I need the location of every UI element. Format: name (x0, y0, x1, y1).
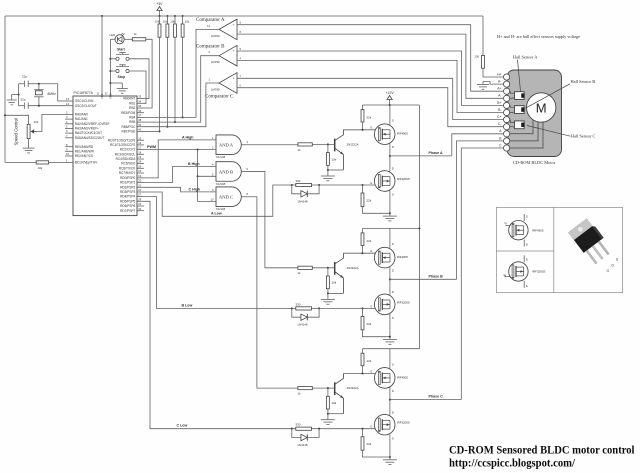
svg-text:RA2/AN2/VREF-/CVREF: RA2/AN2/VREF-/CVREF (75, 122, 110, 126)
wire +5V top rail (5, 15, 483, 17)
wire comparator input to hall pin (237, 78, 503, 119)
pin 18 RC3/SCK/SCL (137, 153, 144, 155)
svg-text:G: G (370, 425, 372, 429)
wire high gate rail B (343, 252, 375, 254)
svg-text:IRF3205S: IRF3205S (397, 177, 410, 181)
motor pin B+ (504, 102, 510, 108)
hall sensor B symbol (515, 106, 525, 114)
pin 6 RA4/T0CKI/C1OUT (65, 132, 73, 134)
svg-text:LM339: LM339 (211, 88, 220, 92)
svg-text:74LS08: 74LS08 (216, 207, 226, 211)
transistor 2N2222A C (334, 382, 336, 395)
svg-text:IRF4905: IRF4905 (397, 375, 408, 379)
wire +12V bus (418, 105, 420, 349)
svg-text:RD4/PSP4: RD4/PSP4 (120, 195, 135, 199)
svg-text:D: D (392, 290, 394, 294)
AND gate AND B 74LS08 (216, 162, 241, 182)
switch Stop (110, 70, 115, 72)
svg-text:10k: 10k (332, 157, 337, 161)
motor pin C+ (504, 117, 510, 123)
svg-text:S: S (392, 362, 394, 366)
svg-text:74LS08: 74LS08 (216, 155, 226, 159)
svg-text:Comparator C: Comparator C (205, 95, 234, 100)
wire AND A output (246, 144, 298, 146)
resistor 1k base A (298, 143, 312, 146)
svg-text:D: D (392, 269, 394, 273)
svg-text:S: S (392, 436, 394, 440)
svg-text:Phase C: Phase C (429, 395, 444, 399)
diode 1N4148 A (292, 185, 301, 194)
wire pull-up to RB pin (182, 37, 184, 117)
svg-text:D: D (526, 243, 528, 247)
svg-text:IRF4905: IRF4905 (532, 228, 544, 232)
svg-text:AND B: AND B (219, 169, 233, 174)
pin 20 RD1/PSP1 (137, 182, 144, 184)
svg-text:RD2/PSP2: RD2/PSP2 (120, 185, 135, 189)
svg-text:RC7/RX/DT: RC7/RX/DT (119, 171, 136, 175)
svg-text:D: D (392, 389, 394, 393)
svg-text:RB6/PGC: RB6/PGC (122, 125, 137, 129)
motor M symbol (527, 93, 556, 122)
pin 37 RB4 (137, 116, 144, 118)
svg-text:S: S (526, 284, 528, 288)
pin 8 RE0/AN5/RD (65, 146, 73, 148)
svg-text:CD-ROM BLDC Motor: CD-ROM BLDC Motor (513, 160, 556, 165)
wire low gate B (292, 307, 376, 309)
svg-text:S: S (392, 242, 394, 246)
motor pin B (504, 138, 510, 144)
wire hall C to pins (510, 120, 514, 123)
pin 23 RC4/SDI/SDA (137, 158, 144, 160)
svg-text:Hall Sensor B: Hall Sensor B (571, 79, 596, 84)
wire motor windings to pins (510, 120, 533, 134)
pin 35 RB2 (137, 107, 144, 109)
wire emitter to ground B (328, 292, 344, 294)
svg-text:A High: A High (182, 135, 193, 139)
svg-text:330: 330 (296, 179, 301, 183)
node Phase C (389, 399, 391, 401)
wire Start to RB0 (129, 59, 149, 99)
svg-text:IRF3205S: IRF3205S (397, 300, 410, 304)
svg-text:RA3/AN3/VREF+: RA3/AN3/VREF+ (75, 127, 99, 131)
wire hall A to pins (510, 91, 514, 93)
crystal X1 8MHz (34, 89, 43, 91)
wire pull-up to RB pin (174, 37, 176, 122)
resistor 330 low gate C (296, 427, 312, 430)
wire comparator input to hall pin (237, 34, 503, 98)
ground H- (482, 82, 484, 85)
pin 13 OSC1/CLKIN (65, 100, 73, 102)
capacitor C2 22p (19, 105, 25, 107)
wire B Low (144, 197, 292, 309)
svg-text:IRF4905: IRF4905 (397, 255, 408, 259)
pin 28 RD5/PSP5 (137, 200, 144, 202)
resistor 22k low gate C (362, 429, 364, 437)
svg-text:Hall Sensor C: Hall Sensor C (571, 134, 596, 139)
wire Phase C to motor pin C (461, 148, 503, 400)
pin 21 RD2/PSP2 (137, 186, 144, 188)
power +5V (159, 11, 161, 17)
svg-text:RA1/AN1: RA1/AN1 (75, 117, 88, 121)
wire H- (483, 82, 503, 85)
wire PWM (144, 149, 216, 151)
wire Comparator A output to RB4 (144, 29, 219, 117)
motor pin A (504, 131, 510, 137)
potentiometer RV1 10k Speed Control (27, 124, 30, 138)
svg-text:RD3/PSP3: RD3/PSP3 (120, 190, 135, 194)
svg-text:330: 330 (296, 302, 301, 306)
svg-text:RD1/PSP1: RD1/PSP1 (120, 181, 135, 185)
svg-text:C+: C+ (497, 115, 501, 119)
svg-text:LM339: LM339 (211, 60, 220, 64)
pin 17 RC2/CCP1 (137, 149, 144, 151)
svg-text:A Low: A Low (211, 212, 222, 216)
svg-text:RA5/AN4/SS/C2OUT: RA5/AN4/SS/C2OUT (75, 136, 105, 140)
pin 9 RE1/AN6/WR (65, 150, 73, 152)
wire AND B output to bridge B (246, 171, 298, 267)
svg-text:PWM: PWM (147, 145, 156, 149)
svg-text:D: D (392, 145, 394, 149)
svg-text:RA4/T0CKI/C1OUT: RA4/T0CKI/C1OUT (75, 131, 102, 135)
motor pin H+ (504, 74, 510, 80)
MOSFET IRF3205S low side A (389, 156, 391, 171)
pin 39 RB6/PGC (137, 126, 144, 128)
svg-text:RB5: RB5 (129, 120, 135, 124)
resistor 10k base-emitter C (327, 388, 329, 396)
svg-text:C Low: C Low (177, 424, 188, 428)
svg-text:2N2222A: 2N2222A (347, 142, 359, 146)
svg-text:Stop: Stop (118, 75, 126, 79)
svg-text:RE0/AN5/RD: RE0/AN5/RD (75, 145, 94, 149)
hall sensor C symbol (515, 121, 525, 129)
svg-text:C High: C High (189, 187, 201, 191)
pin 22 RD3/PSP3 (137, 191, 144, 193)
diode 1N4148 B (292, 308, 301, 317)
pin 1 MCLR/Vpp/THV (65, 161, 73, 163)
pin 16 RC1/T1OSI/CCP2 (137, 144, 144, 146)
svg-text:330: 330 (296, 423, 301, 427)
resistor 22k high gate B (362, 228, 364, 233)
motor pin C- (504, 124, 510, 130)
resistor 22k low gate B (362, 308, 364, 316)
wire comparator input to hall pin (237, 51, 503, 105)
svg-text:RE1/AN6/WR: RE1/AN6/WR (75, 149, 95, 153)
svg-text:+12V: +12V (386, 91, 395, 95)
comparator Comparator B LM339 (219, 45, 237, 66)
motor pin H- (504, 81, 510, 87)
wire +12V rail bridge C (363, 348, 420, 350)
svg-text:Hall Sensor A: Hall Sensor A (513, 55, 538, 60)
wire VDD to +5V (101, 16, 103, 96)
pin 2 RA0/AN0 (65, 113, 73, 115)
svg-text:G: G (370, 249, 372, 253)
wire Phase C (390, 399, 461, 401)
svg-text:+5V: +5V (156, 2, 163, 6)
wire low gate A (292, 184, 376, 186)
svg-text:100: 100 (474, 55, 479, 59)
svg-text:D: D (392, 410, 394, 414)
svg-text:MCLR/Vpp/THV: MCLR/Vpp/THV (75, 161, 98, 165)
MOSFET IRF3205S low side B (389, 279, 391, 294)
wire hall B to pins (510, 105, 514, 107)
svg-text:Comparator B: Comparator B (196, 45, 225, 50)
svg-text:10k: 10k (185, 20, 190, 24)
svg-text:+: + (232, 49, 234, 53)
resistor 22k high gate C (362, 349, 364, 354)
comparator Comparator C LM339 (219, 73, 237, 94)
diode 1N4148 C (292, 429, 301, 438)
pin 3 RA1/AN1 (65, 118, 73, 120)
wire high gate rail C (343, 373, 375, 375)
svg-text:10k: 10k (332, 281, 337, 285)
wire emitter to ground C (328, 413, 344, 415)
pin 15 RC0/T1OSO/T1CKI (137, 139, 144, 141)
svg-text:RC0/T1OSO/T1CKI: RC0/T1OSO/T1CKI (108, 138, 136, 142)
svg-text:22k: 22k (367, 199, 372, 203)
pin 26 RC7/RX/DT (137, 172, 144, 174)
wire pot to +5V border (5, 115, 29, 124)
svg-text:C-: C- (498, 122, 502, 126)
svg-text:RC1/T1OSI/CCP2: RC1/T1OSI/CCP2 (110, 143, 136, 147)
svg-text:Phase B: Phase B (429, 274, 444, 278)
svg-text:G: G (370, 304, 372, 308)
wire A Low (144, 185, 292, 216)
wire C Low (144, 201, 292, 428)
PIC microcontroller U1 PIC16F877A (73, 96, 137, 216)
svg-text:RB3/PGM: RB3/PGM (121, 111, 136, 115)
svg-text:G: G (607, 269, 610, 273)
svg-text:B Low: B Low (182, 303, 193, 307)
pin 4 RA2/AN2/VREF-/CVREF (65, 123, 73, 125)
wire A High (144, 140, 216, 178)
svg-text:22k: 22k (367, 359, 372, 363)
svg-text:RE2/AN7/CS: RE2/AN7/CS (75, 154, 93, 158)
pin 30 RD7/PSP7 (137, 210, 144, 212)
svg-text:RD7/PSP7: RD7/PSP7 (120, 209, 135, 213)
pin 19 RD0/PSP0 (137, 177, 144, 179)
pin 24 RC5/SDO (137, 163, 144, 165)
hall sensor A symbol (515, 92, 525, 100)
svg-text:IRF3205S: IRF3205S (397, 421, 410, 425)
wire AND C output to bridge C (246, 197, 298, 388)
svg-text:AND C: AND C (219, 195, 233, 200)
wire high gate rail A (343, 129, 375, 131)
svg-text:22k: 22k (367, 442, 372, 446)
pin 34 RB1 (137, 102, 144, 104)
pin 7 RA5/AN4/SS/C2OUT (65, 137, 73, 139)
wire Phase B (390, 278, 457, 280)
svg-text:10k: 10k (38, 166, 43, 170)
wire gnd rail buttons (109, 39, 111, 96)
svg-text:2N2222A: 2N2222A (347, 266, 359, 270)
ground source C (389, 456, 391, 458)
wire Phase A to motor pin A (452, 134, 503, 156)
svg-text:RC3/SCK/SCL: RC3/SCK/SCL (115, 152, 136, 156)
svg-text:10k: 10k (34, 120, 39, 124)
info box (496, 207, 622, 292)
svg-text:RC6/TX/CK: RC6/TX/CK (119, 166, 136, 170)
wire comparator input to hall pin (237, 60, 503, 112)
svg-text:B+: B+ (497, 101, 501, 105)
svg-text:+: + (232, 23, 234, 27)
wire +12V rail bridge A (363, 104, 420, 106)
wire comparator input to hall pin (237, 25, 503, 92)
resistor RP4 10k pull-up (182, 16, 184, 24)
ground source A (389, 212, 391, 214)
svg-text:A+: A+ (497, 87, 501, 91)
transistor 2N2222A B (334, 262, 336, 275)
wire Comparator B output to RB5 (144, 56, 219, 122)
svg-text:RC5/SDO: RC5/SDO (121, 162, 136, 166)
switch Start (110, 58, 115, 60)
svg-text:RC2/CCP1: RC2/CCP1 (120, 148, 136, 152)
AND gate AND C 74LS08 (216, 187, 241, 207)
svg-text:S: S (392, 119, 394, 123)
svg-text:RB2: RB2 (129, 106, 135, 110)
svg-text:VDD: VDD (108, 93, 112, 99)
ground pot (28, 139, 30, 149)
wire +12V rail bridge B (363, 227, 420, 229)
svg-text:OSC2/CLKOUT: OSC2/CLKOUT (75, 104, 97, 108)
wire B High (144, 167, 216, 183)
pin 14 OSC2/CLKOUT (65, 105, 73, 107)
svg-text:AND A: AND A (219, 143, 234, 148)
pin 10 RE2/AN7/CS (65, 155, 73, 157)
pin 29 RD6/PSP6 (137, 205, 144, 207)
wire low gate C (292, 428, 376, 430)
svg-text:B-: B- (498, 108, 501, 112)
resistor 330 low gate B (296, 307, 312, 310)
svg-text:1N4148: 1N4148 (297, 199, 308, 203)
svg-text:10k: 10k (332, 401, 337, 405)
svg-text:IRF4905: IRF4905 (397, 132, 408, 136)
resistor RP2 10k pull-up (166, 16, 168, 24)
resistor 10k base-emitter A (327, 144, 329, 152)
svg-text:B High: B High (188, 162, 200, 166)
svg-text:H+: H+ (497, 72, 501, 76)
svg-text:RC4/SDI/SDA: RC4/SDI/SDA (116, 157, 137, 161)
resistor RP1 10k pull-up (159, 16, 161, 24)
wire C High (144, 187, 216, 192)
wire PWM branch (197, 150, 199, 202)
svg-text:RA0/AN0: RA0/AN0 (75, 113, 88, 117)
pin 33 RB0/INT (137, 98, 144, 100)
svg-text:D: D (526, 258, 528, 262)
svg-text:OSC1/CLKIN: OSC1/CLKIN (75, 99, 94, 103)
wire +5V left border (4, 16, 6, 162)
svg-text:2N2222A: 2N2222A (347, 386, 359, 390)
resistor 10k base-emitter B (327, 268, 329, 276)
svg-text:RD6/PSP6: RD6/PSP6 (120, 204, 135, 208)
ground buttons (110, 82, 122, 84)
wire H+ (483, 68, 503, 77)
TO-220 package drawing (568, 217, 613, 265)
svg-text:LM339: LM339 (211, 34, 220, 38)
wire Phase A (390, 155, 452, 157)
pin 38 RB5 (137, 121, 144, 123)
power +12V (389, 100, 391, 106)
svg-text:RD5/PSP5: RD5/PSP5 (120, 199, 135, 203)
MOSFET IRF4905 high side A (389, 105, 391, 125)
LED D1 (115, 35, 124, 44)
pin 27 RD4/PSP4 (137, 196, 144, 198)
svg-text:LED: LED (110, 33, 116, 37)
pin 5 RA3/AN3/VREF+ (65, 127, 73, 129)
svg-text:M: M (536, 100, 547, 115)
resistor R4 100 hall supply (482, 16, 484, 55)
svg-text:S: S (392, 316, 394, 320)
svg-text:1N4148: 1N4148 (297, 443, 308, 447)
capacitor C1 22p (19, 83, 25, 85)
ground emitter C (327, 414, 329, 420)
MOSFET IRF3205S low side C (389, 400, 391, 415)
svg-text:H-: H- (498, 80, 502, 84)
ground emitter A (327, 170, 329, 176)
resistor 330 low gate A (296, 183, 312, 186)
svg-text:1N4148: 1N4148 (297, 323, 308, 327)
wire RB7 to pull-up (144, 130, 160, 132)
ground crystal (12, 94, 19, 96)
comparator Comparator A LM339 (219, 19, 237, 40)
svg-text:22k: 22k (367, 322, 372, 326)
svg-text:22p: 22p (22, 75, 27, 79)
svg-text:22k: 22k (367, 116, 372, 120)
ground source B (389, 336, 391, 338)
resistor R2 10k MCLR (5, 161, 36, 163)
motor pin B- (504, 109, 510, 115)
wire pull-up to RB pin (166, 37, 168, 127)
wire crystal net (39, 83, 58, 85)
svg-text:RB7/PGD: RB7/PGD (122, 130, 137, 134)
svg-text:G: G (370, 369, 372, 373)
svg-text:10k: 10k (170, 20, 175, 24)
wire Comparator C output to RB6 (144, 83, 219, 127)
svg-text:22p: 22p (21, 98, 26, 102)
svg-text:A-: A- (498, 94, 501, 98)
svg-text:10k: 10k (155, 20, 160, 24)
svg-text:8MHz: 8MHz (48, 92, 57, 96)
AND gate AND A 74LS08 (216, 135, 241, 155)
wire comparator input to hall pin (237, 88, 503, 127)
svg-text:CD-ROM Sensored BLDC motor con: CD-ROM Sensored BLDC motor control (449, 444, 635, 457)
transistor 2N2222A A (334, 139, 336, 152)
CD-ROM BLDC Motor block (507, 70, 562, 157)
svg-text:22k: 22k (367, 239, 372, 243)
svg-text:RB0/INT: RB0/INT (123, 97, 135, 101)
pin 36 RB3/PGM (137, 112, 144, 114)
MOSFET IRF4905 high side C (389, 349, 391, 369)
svg-text:IRF3205S: IRF3205S (532, 270, 546, 274)
svg-text:PIC16F877A: PIC16F877A (74, 91, 94, 95)
svg-text:RB1: RB1 (129, 101, 135, 105)
resistor 22k low gate A (362, 185, 364, 193)
node Phase B (389, 278, 391, 280)
svg-text:G: G (370, 126, 372, 130)
resistor 1k base C (298, 387, 312, 390)
svg-text:+: + (232, 76, 234, 80)
resistor 1k base B (298, 266, 312, 269)
node Phase A (389, 155, 391, 157)
MOSFET IRF4905 high side B (389, 228, 391, 248)
svg-text:G: G (370, 181, 372, 185)
svg-text:RB4: RB4 (129, 116, 135, 120)
wire Stop to RB1 (129, 71, 146, 103)
svg-text:10k: 10k (163, 20, 168, 24)
info MOSFET IRF3205S symbol (523, 255, 525, 262)
pin 40 RB7/PGD (137, 130, 144, 132)
wire Phase B to motor pin B (457, 141, 504, 279)
motor pin A- (504, 95, 510, 101)
